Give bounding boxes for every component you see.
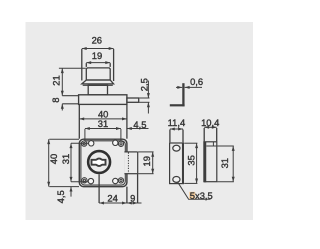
dim 31 top extension right (through hole) bbox=[120, 129, 122, 147]
strike plate front outline bbox=[170, 143, 184, 184]
svg-text:19: 19 bbox=[141, 156, 152, 166]
screw hole bottom-left round bbox=[88, 178, 93, 183]
dim 40 top extension left bbox=[78, 105, 80, 139]
dim 31 left line bbox=[70, 143, 72, 182]
dim 4,5 left outside arrow bbox=[70, 187, 72, 197]
top view: flange rim line bbox=[83, 84, 113, 86]
svg-text:11,4: 11,4 bbox=[168, 117, 186, 128]
dim 26 line bbox=[82, 48, 114, 50]
dim 11,4 extension right bbox=[182, 130, 184, 143]
dim 31 side line bbox=[232, 146, 234, 182]
dim 40 left line bbox=[48, 139, 50, 186]
svg-text:31: 31 bbox=[98, 118, 108, 129]
front view: body inner outline bbox=[81, 141, 125, 185]
dim 19 latch extension top bbox=[138, 151, 154, 153]
dim 10,4 extension left bbox=[203, 128, 205, 141]
latch right edge bbox=[137, 152, 139, 174]
dim 19 extension lines bbox=[85, 63, 87, 67]
svg-text:9: 9 bbox=[130, 192, 135, 203]
svg-text:4,5: 4,5 bbox=[55, 190, 66, 203]
strike plate side view thick plate edge bbox=[204, 142, 206, 183]
dim 21 head-top extension bbox=[59, 67, 86, 69]
screw hole bottom-left countersunk bbox=[82, 178, 87, 183]
highlight behind 5 in 5x3,5 bbox=[189, 192, 195, 199]
screw hole top-left countersunk bbox=[82, 141, 87, 146]
strike plate front bend edge (thick right) bbox=[182, 143, 184, 184]
screw hole top-right countersunk bbox=[118, 141, 123, 146]
screw hole bottom-right round bbox=[113, 178, 118, 183]
svg-text:10,4: 10,4 bbox=[201, 117, 219, 128]
svg-text:2,5: 2,5 bbox=[139, 78, 150, 91]
dim 24 body-edge extension bbox=[126, 187, 128, 203]
dim 26 extension lines bbox=[81, 49, 83, 81]
svg-text:0,6: 0,6 bbox=[190, 76, 203, 87]
dim 31 top line bbox=[85, 128, 121, 130]
svg-text:5x3,5: 5x3,5 bbox=[190, 190, 213, 201]
key slot bbox=[92, 159, 106, 166]
screw hole bottom-right countersunk bbox=[118, 178, 123, 183]
top view: right tab (latch in profile) bbox=[127, 98, 139, 102]
dim 21 line bbox=[61, 68, 63, 96]
strike plate side view outline bbox=[204, 142, 217, 182]
dim 35 extension top bbox=[184, 142, 197, 144]
svg-text:40: 40 bbox=[48, 154, 59, 164]
gray drawing panel bbox=[26, 22, 254, 220]
dim 24 cylinder-center extension bbox=[98, 174, 100, 203]
dim 19 latch line bbox=[152, 152, 154, 174]
dim 2,5 tab-top extension bbox=[139, 97, 149, 99]
front view: body outer outline bbox=[79, 139, 127, 186]
dim 10,4 line bbox=[204, 126, 217, 128]
dim 2,5 lower arrow segment bbox=[147, 102, 149, 113]
svg-text:31: 31 bbox=[219, 158, 230, 168]
svg-text:4,5: 4,5 bbox=[133, 119, 146, 130]
latch hidden edge dashed bbox=[127, 153, 129, 174]
dim 31 side extension bottom bbox=[217, 181, 234, 183]
svg-text:35: 35 bbox=[185, 155, 196, 165]
top view: cylinder flange bbox=[82, 80, 114, 84]
dim 19 latch extension bottom bbox=[138, 173, 154, 175]
dim 0,6 left arrow bbox=[176, 86, 182, 88]
dim 40 top extension right bbox=[126, 105, 128, 139]
top view: cylinder neck bbox=[88, 85, 107, 95]
dim 11,4 line bbox=[170, 128, 183, 130]
cylinder ring bbox=[88, 151, 110, 173]
svg-text:21: 21 bbox=[51, 75, 62, 85]
dim 31 side extension top bbox=[217, 145, 234, 147]
strike plate side view flange inner edge bbox=[212, 142, 214, 146]
leader line 5x3,5 bbox=[178, 182, 211, 199]
dim 31 left extension bottom bbox=[71, 181, 89, 183]
top view: base plate lip bottom edge bbox=[62, 103, 78, 105]
dim 40 left extension top bbox=[49, 138, 79, 140]
L-profile horizontal stroke bbox=[170, 104, 185, 106]
dim 35 extension bottom bbox=[184, 182, 197, 184]
dim 2,5 upper arrow segment bbox=[147, 81, 149, 98]
dim 8 lower outside arrow bbox=[61, 104, 63, 111]
dim 35 line bbox=[196, 143, 198, 183]
top view: base plate lip top edge bbox=[62, 95, 78, 97]
dim 40 left extension bottom bbox=[49, 186, 79, 188]
latch bottom edge bbox=[124, 173, 137, 175]
L-profile vertical stroke bbox=[182, 83, 184, 106]
svg-text:31: 31 bbox=[60, 154, 71, 164]
latch top edge bbox=[124, 151, 137, 153]
dim 2,5 tab-bottom extension bbox=[139, 101, 149, 103]
dim 31 left extension top bbox=[71, 142, 89, 144]
svg-text:8: 8 bbox=[50, 97, 61, 102]
dim 24 line bbox=[99, 202, 127, 204]
svg-text:24: 24 bbox=[107, 192, 117, 203]
strike plate side view flange bottom line bbox=[206, 145, 217, 147]
dim 4,5 top line with outside arrow bbox=[127, 128, 149, 130]
dim 9 line tail right bbox=[138, 202, 142, 204]
strike plate hole top bbox=[173, 145, 180, 151]
dim 9 line bbox=[127, 202, 138, 204]
svg-text:19: 19 bbox=[92, 50, 102, 61]
top view: cylinder head bbox=[86, 68, 110, 80]
dim 10,4 extension right bbox=[216, 128, 218, 141]
dim 0,6 right line with arrow bbox=[185, 86, 202, 88]
dim 19 line bbox=[86, 62, 110, 64]
screw hole top-left round bbox=[89, 141, 94, 146]
top view: base plate main body bbox=[79, 95, 127, 105]
latch bolt fill bbox=[125, 152, 138, 173]
screw hole top-right round bbox=[113, 140, 118, 145]
dim 9 latch-edge extension bbox=[137, 174, 139, 203]
dim 11,4 extension left bbox=[169, 130, 171, 143]
dim 31 top extension left (through hole) bbox=[84, 129, 86, 147]
strike plate hole bottom bbox=[173, 176, 180, 182]
svg-text:26: 26 bbox=[92, 35, 102, 46]
dim 40 top line bbox=[79, 118, 127, 120]
